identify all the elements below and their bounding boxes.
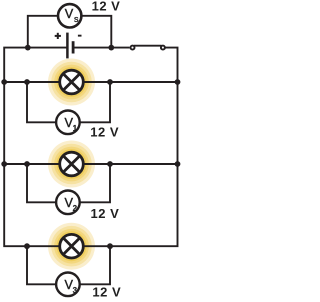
lamp L2 cross bbox=[63, 156, 80, 173]
svg-text:12 V: 12 V bbox=[91, 206, 120, 221]
junction node left rail row 2 bbox=[1, 161, 7, 167]
lamp L1 body bbox=[60, 70, 84, 94]
junction node V2 left bbox=[24, 161, 30, 167]
lamp L1 glow bbox=[48, 59, 95, 106]
lamp L3 body bbox=[60, 234, 84, 258]
lamp L1 cross bbox=[63, 74, 80, 91]
junction node V2 right bbox=[107, 161, 113, 167]
wire V1 left branch bbox=[27, 82, 58, 122]
wire V2 left branch bbox=[27, 164, 58, 202]
junction node battery row right bbox=[108, 45, 114, 51]
wire V3 left branch bbox=[27, 246, 58, 284]
wire V1 right branch bbox=[78, 82, 111, 122]
lamp L3 cross bbox=[63, 238, 80, 255]
voltmeter Vs body bbox=[58, 4, 81, 27]
voltmeter V1 body bbox=[56, 111, 80, 135]
battery B1 minus label bbox=[78, 35, 82, 37]
lamp L2 body bbox=[60, 152, 84, 176]
wire V3 right branch bbox=[78, 246, 111, 284]
wire V2 right branch bbox=[78, 164, 111, 202]
lamp L2 glow bbox=[48, 141, 95, 188]
svg-text:12 V: 12 V bbox=[90, 125, 119, 140]
svg-text:2: 2 bbox=[73, 204, 78, 213]
switch S1 blade bbox=[134, 45, 162, 47]
junction node left rail row 1 bbox=[1, 79, 7, 85]
wire outer loop (left rail, bottom row 3 wire, right rail) bbox=[4, 48, 177, 247]
junction node V3 right bbox=[107, 243, 113, 249]
junction node right rail row 1 bbox=[175, 79, 181, 85]
svg-text:V: V bbox=[65, 7, 74, 21]
switch S1 right terminal bbox=[161, 46, 165, 50]
svg-text:s: s bbox=[74, 14, 79, 24]
battery B1 short plate (-) bbox=[72, 41, 75, 53]
wire lamp row 2 bbox=[4, 163, 177, 165]
svg-text:3: 3 bbox=[73, 286, 78, 295]
voltmeter V2 body bbox=[56, 191, 80, 215]
wire lamp row 1 bbox=[4, 81, 177, 83]
junction node V1 left bbox=[24, 79, 30, 85]
wire battery to switch bbox=[75, 47, 130, 49]
battery B1 long plate (+) bbox=[66, 33, 69, 59]
junction node V1 right bbox=[107, 79, 113, 85]
junction node battery row left bbox=[25, 45, 31, 51]
voltmeter V3 body bbox=[56, 273, 80, 297]
junction node right rail row 2 bbox=[175, 161, 181, 167]
lamp L3 glow bbox=[48, 223, 95, 270]
junction node V3 left bbox=[24, 243, 30, 249]
svg-text:12 V: 12 V bbox=[92, 0, 121, 14]
svg-text:12 V: 12 V bbox=[92, 284, 121, 299]
wire Vs right branch bbox=[82, 16, 112, 48]
battery B1 plus label bbox=[55, 33, 61, 39]
switch S1 left terminal bbox=[131, 46, 135, 50]
wire Vs left branch bbox=[28, 16, 58, 48]
svg-text:1: 1 bbox=[73, 124, 78, 133]
